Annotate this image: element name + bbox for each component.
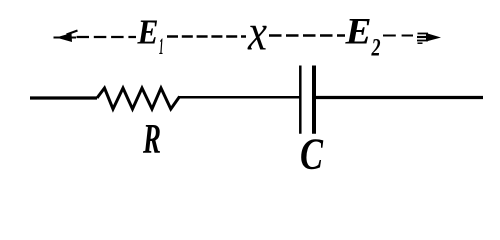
wire left segment	[30, 96, 97, 99]
dashed dimension line segment 3	[269, 34, 345, 37]
arrow left head (dimension line)	[54, 31, 78, 43]
capacitor C right plate	[312, 66, 316, 134]
wire right segment	[316, 96, 483, 99]
svg-text:E: E	[344, 11, 371, 52]
svg-text:2: 2	[371, 35, 381, 62]
svg-text:C: C	[300, 130, 324, 179]
dashed dimension line segment 2	[167, 35, 246, 38]
svg-text:1: 1	[159, 34, 164, 59]
wire middle segment (resistor to capacitor)	[179, 96, 300, 99]
arrow right head (dimension line)	[417, 33, 441, 43]
label E2	[344, 11, 380, 62]
dashed dimension line segment 1	[77, 36, 137, 38]
capacitor C left plate	[299, 66, 302, 134]
svg-text:x: x	[247, 5, 267, 62]
dashed dimension line segment 4	[383, 35, 413, 37]
resistor R zigzag	[97, 88, 180, 109]
label E1	[137, 13, 164, 60]
svg-text:R: R	[142, 117, 161, 163]
svg-text:E: E	[137, 13, 159, 52]
